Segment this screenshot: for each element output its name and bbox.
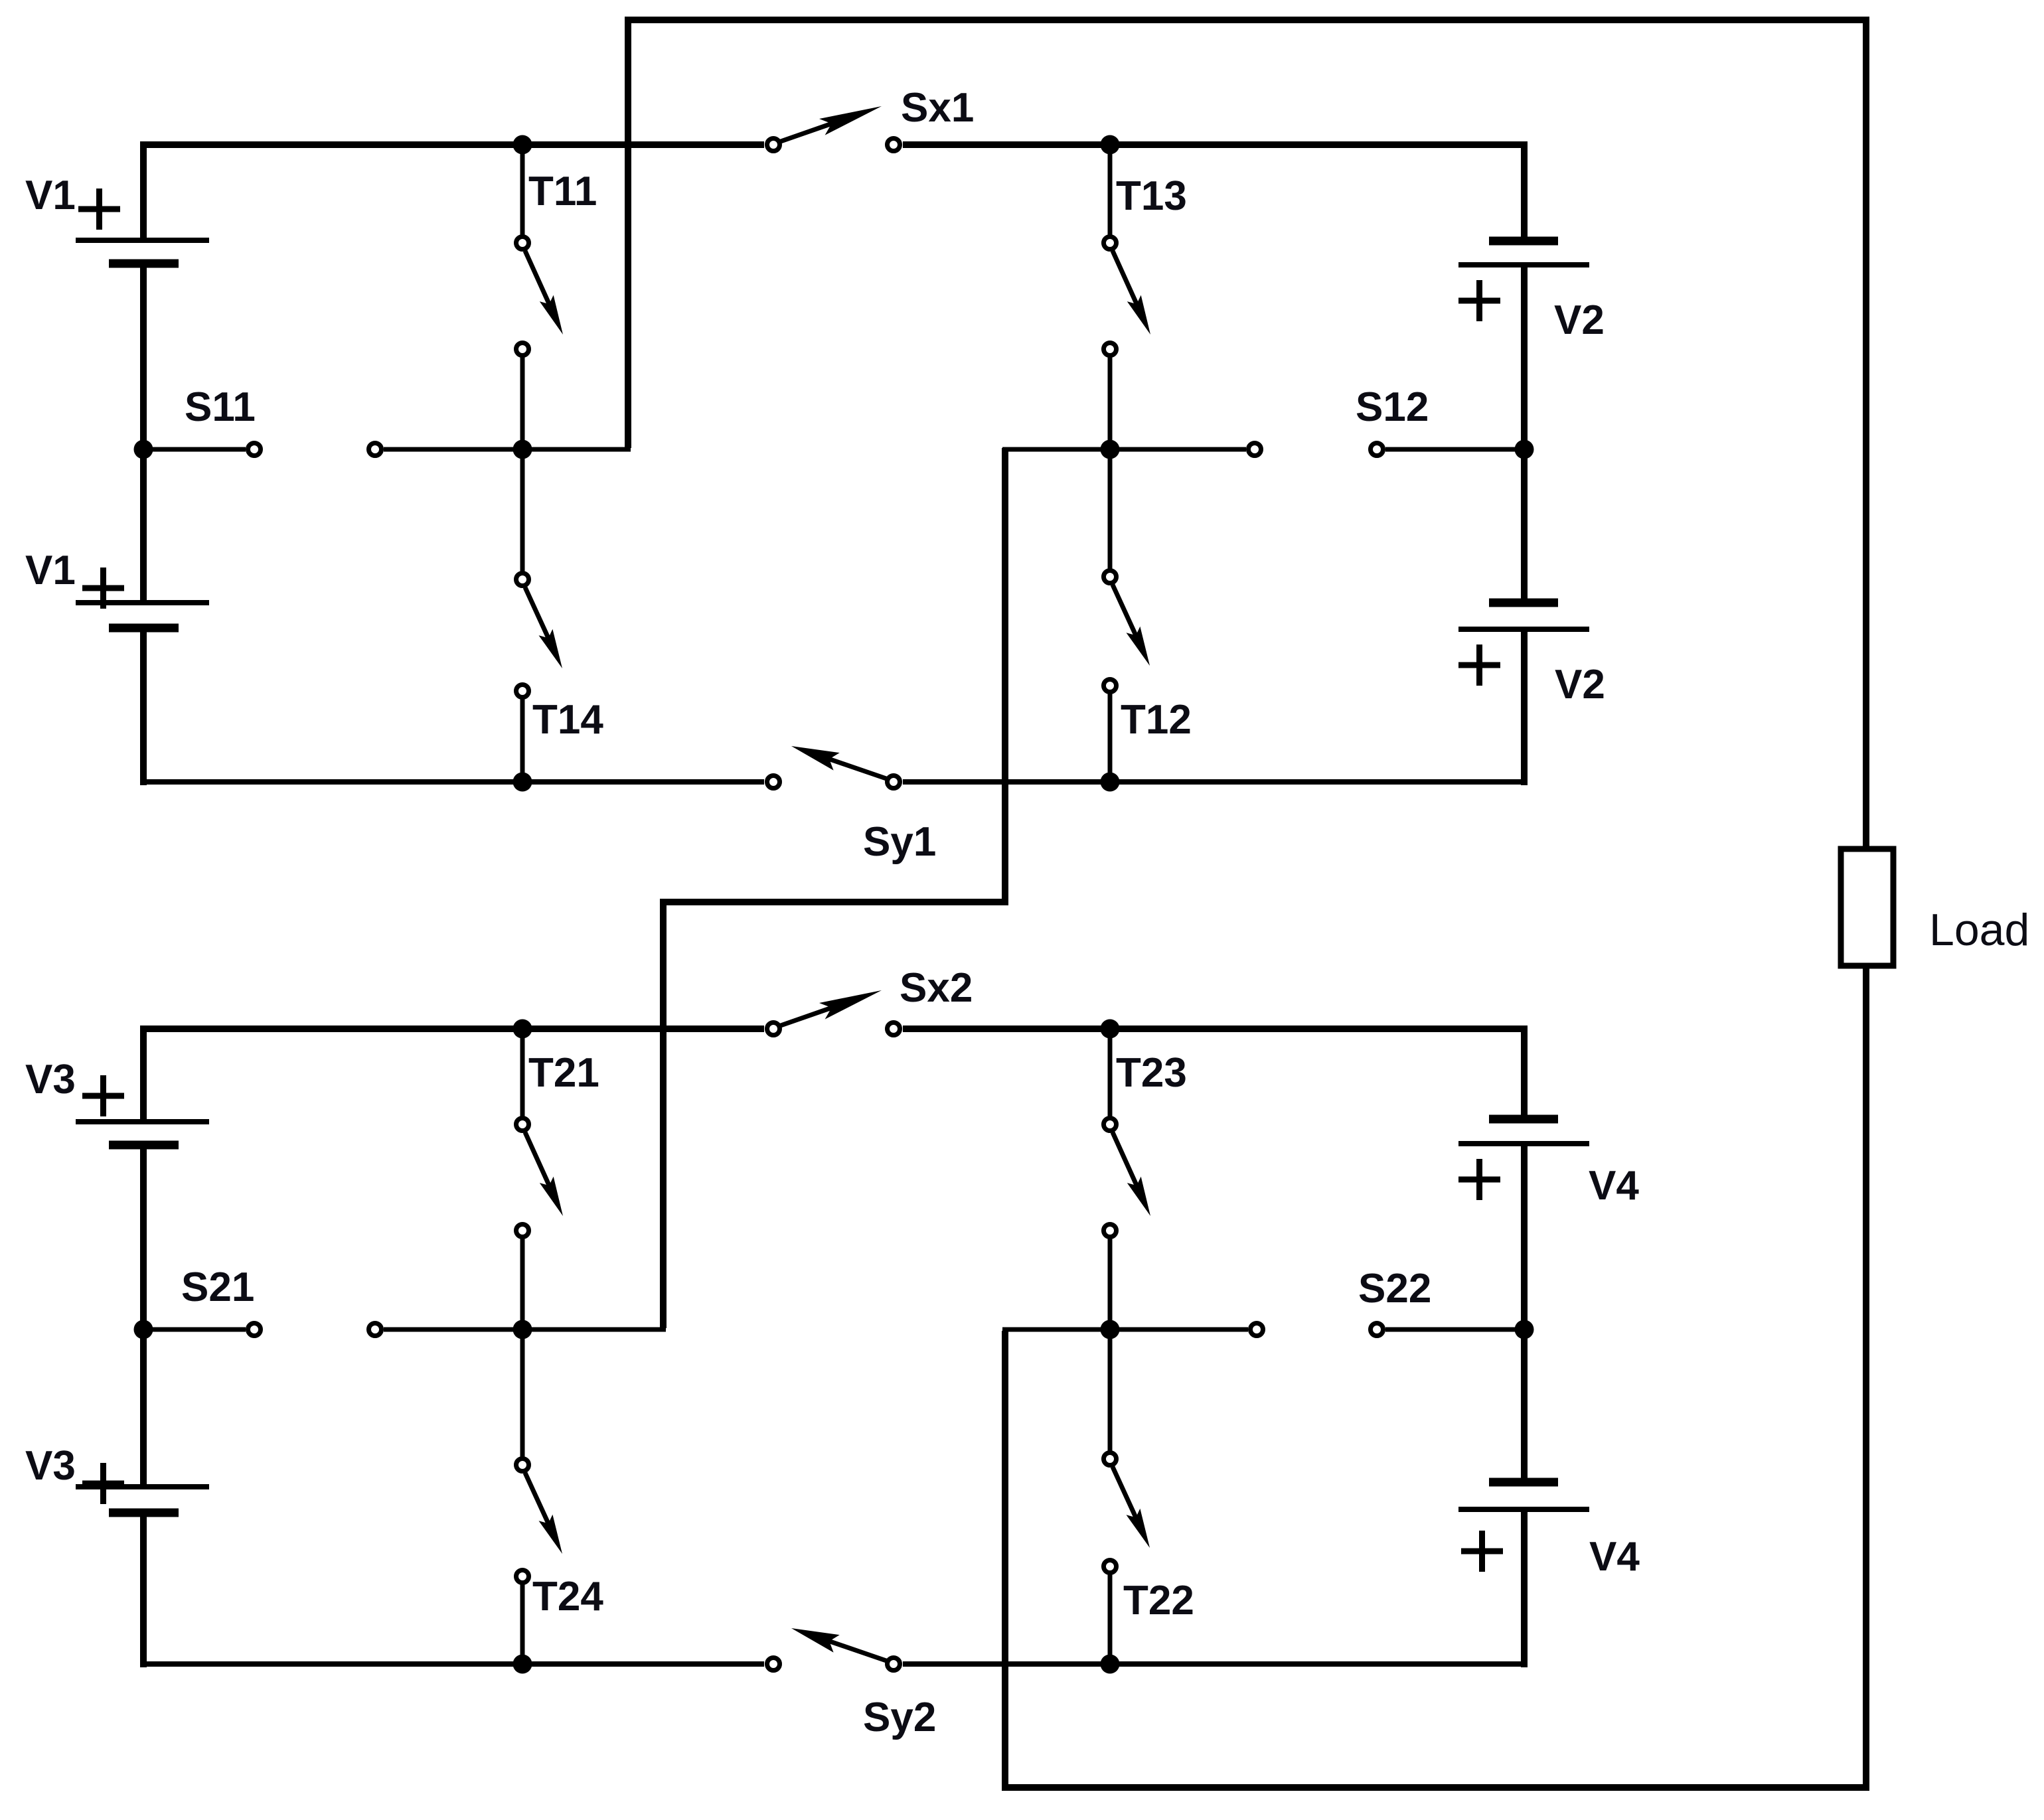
wire: top rail of upper-left loop (V1 top to Sx1 left contact)	[140, 141, 764, 148]
junction dot T11 bottom on S11 row	[513, 440, 532, 459]
plus sign of V1 (upper)	[78, 206, 120, 212]
switch Sx1: contacts on top rail	[767, 139, 780, 151]
junction dot T21 top on Sx2 rail	[513, 1020, 532, 1039]
battery V4 (lower) plates	[1489, 1478, 1558, 1487]
switch S12 contacts	[1249, 443, 1261, 456]
switch S21 contacts	[248, 1324, 261, 1336]
switch T12: lower stub	[1108, 694, 1113, 782]
switch S21: wire from V3 column junction to left contact	[143, 1327, 246, 1332]
battery V1 (upper) to S11 junction wire	[140, 264, 147, 449]
junction dot S12 right on V2 column	[1515, 440, 1534, 459]
wire: Sy1 rail from corner to Sy1 left contact (passes T14 junction)	[140, 779, 764, 785]
wire: Sx2 rail from Sx2 right contact to V4 corner	[903, 1025, 1528, 1032]
switch T14: contacts and arm	[516, 573, 529, 586]
switch T23: contacts and arm	[1104, 1118, 1117, 1131]
switch Sy1: arm with arrow	[817, 755, 887, 779]
junction dot T12 bottom on Sy1 rail	[1101, 773, 1120, 792]
wire: Sy2 rail from corner to Sy2 left contact (passes T24 junction)	[140, 1661, 764, 1667]
plus sign of V4 (upper)	[1458, 1177, 1500, 1183]
wire: V4 lower to Sy2 rail right corner	[1521, 1509, 1528, 1667]
svg-text:S21: S21	[181, 1264, 254, 1310]
svg-text:S22: S22	[1358, 1266, 1431, 1312]
svg-text:V2: V2	[1555, 662, 1605, 708]
switch T13: lower stub	[1108, 357, 1113, 449]
svg-text:V4: V4	[1589, 1163, 1639, 1209]
svg-text:T13: T13	[1116, 173, 1187, 219]
battery V4 (upper) plates	[1489, 1115, 1558, 1124]
junction dot T22 top on S22 row	[1101, 1320, 1120, 1339]
switch S22: wire from z-wire corner to left contact (passes T22 junction)	[1002, 1327, 1248, 1332]
wire: top rail from Sx1 right contact to V2 top corner	[903, 141, 1528, 148]
svg-text:T21: T21	[528, 1050, 599, 1096]
wire: V2 lower to Sy1 rail right corner	[1521, 629, 1528, 785]
svg-text:T14: T14	[532, 697, 603, 743]
svg-text:Sy2: Sy2	[863, 1695, 936, 1740]
switch S22 contacts	[1251, 1324, 1263, 1336]
switch S11 contacts	[248, 443, 261, 456]
svg-text:S11: S11	[185, 384, 256, 430]
switch T21: lower stub	[520, 1239, 525, 1329]
switch T21: contacts and arm	[516, 1118, 529, 1131]
battery V2 (lower): wire from S12 junction down	[1521, 449, 1528, 603]
battery V2 (upper) plates	[1489, 237, 1558, 246]
wire: S12 row left end down, jog left, down to S21 row (crossover)	[663, 448, 1005, 1328]
switch Sy2: contacts on Sy2 rail	[767, 1658, 780, 1671]
switch T14: upper stub	[520, 449, 525, 572]
wire: Sy1 rail from Sy1 right contact to V2 corner (passes T12 junction, crosses z-wire)	[903, 779, 1528, 785]
switch T13: contacts and arm	[1104, 237, 1117, 250]
svg-text:V1: V1	[25, 173, 76, 218]
plus sign of V2 (lower)	[1458, 662, 1500, 668]
junction dot S21 left	[134, 1320, 153, 1339]
switch T22: contacts and arm	[1104, 1453, 1117, 1466]
battery V4 (upper): column wire from Sx2 rail corner	[1521, 1025, 1528, 1119]
svg-text:V4: V4	[1589, 1534, 1640, 1580]
svg-text:V2: V2	[1554, 297, 1605, 343]
switch T23: lower stub	[1108, 1239, 1113, 1329]
svg-text:T11: T11	[528, 169, 597, 214]
wire: Load bottom lead down, left along bottom, up to S22 row	[1005, 966, 1866, 1787]
battery V4 (lower): wire from S22 junction down	[1521, 1329, 1528, 1482]
switch T22: upper stub	[1108, 1329, 1113, 1452]
junction dot T23 top on Sx2 rail	[1101, 1020, 1120, 1039]
wire: V1 lower to Sy1 rail corner	[140, 628, 147, 785]
wire: outer top rail from node above T11 to Load column	[628, 20, 1866, 852]
junction dot S22 right on V4 column	[1515, 1320, 1534, 1339]
switch S21: wire from right contact to bottom-left vertical (passes T21 junction)	[384, 1327, 666, 1332]
svg-text:Sx1: Sx1	[901, 85, 974, 131]
switch S12: wire from z-wire corner to left contact (passes T12 junction)	[1002, 447, 1246, 452]
svg-text:T23: T23	[1116, 1050, 1187, 1096]
svg-text:Sx2: Sx2	[900, 965, 973, 1011]
plus sign of V3 (lower)	[82, 1481, 124, 1487]
wire: Sy2 rail from Sy2 right contact to V4 corner (passes T22 junction, crosses z-wire)	[903, 1661, 1528, 1667]
battery V1 (upper): column wire above	[140, 141, 147, 240]
switch T23: upper stub	[1108, 1029, 1113, 1117]
junction dot T14 bottom on Sy1 rail	[513, 773, 532, 792]
plus sign of V4 (lower)	[1461, 1549, 1503, 1555]
svg-text:V3: V3	[25, 1057, 76, 1102]
switch T12: upper stub	[1108, 449, 1113, 569]
battery V2 (lower) plates	[1489, 599, 1558, 607]
battery V2 (upper): column wire from top rail corner	[1521, 141, 1528, 241]
switch Sx1: arm with arrow	[781, 117, 849, 141]
switch Sx2: arm with arrow	[781, 1002, 849, 1025]
switch Sy1: contacts on lower rail	[767, 776, 780, 789]
switch T22: lower stub	[1108, 1574, 1113, 1664]
battery V3 (lower) plates	[76, 1484, 209, 1489]
switch T11: lower stub	[520, 357, 525, 449]
svg-text:Sy1: Sy1	[863, 819, 936, 865]
svg-text:T22: T22	[1123, 1578, 1194, 1624]
wire: V3 lower to Sy2 rail corner	[140, 1513, 147, 1667]
switch T11: upper stub	[520, 145, 525, 236]
plus sign of V1 (lower)	[82, 585, 124, 591]
junction dot T12 top on S12 row	[1101, 440, 1120, 459]
plus sign of V2 (upper)	[1458, 298, 1500, 304]
switch T24: contacts and arm	[516, 1459, 529, 1472]
battery V2 (upper) to S12 junction wire	[1521, 265, 1528, 449]
battery V3 (lower): wire from S21 junction down	[140, 1329, 147, 1487]
switch S12: wire from right contact to V2 column junction	[1385, 447, 1524, 452]
svg-text:T24: T24	[532, 1574, 603, 1620]
switch Sx2: contacts on Sx2 rail	[767, 1023, 780, 1035]
battery V3 (upper) plates	[76, 1119, 209, 1124]
switch S11: wire from right contact to upper-left vertical (passes T11 junction)	[384, 447, 631, 452]
battery V4 (upper) to S22 junction wire	[1521, 1144, 1528, 1329]
junction dot S11 left	[134, 440, 153, 459]
svg-text:V1: V1	[25, 548, 76, 593]
plus sign of V3 (upper)	[82, 1093, 124, 1099]
battery V1 (upper) plates	[76, 238, 209, 243]
switch T11: contacts and arm	[516, 237, 529, 250]
switch Sy2: arm with arrow	[817, 1637, 887, 1661]
switch T24: upper stub	[520, 1329, 525, 1458]
switch T21: upper stub	[520, 1029, 525, 1117]
switch T13: upper stub	[1108, 145, 1113, 236]
switch S22: wire from right contact to V4 column junction	[1385, 1327, 1524, 1332]
switch S11: wire from V1 column junction to left contact	[143, 447, 246, 452]
switch T12: contacts and arm	[1104, 571, 1117, 583]
battery V1 (lower): wire from S11 junction down	[140, 449, 147, 603]
junction dot T24 bottom on Sy2 rail	[513, 1655, 532, 1674]
battery V1 (lower) plates	[76, 600, 209, 605]
svg-text:Load: Load	[1929, 905, 2029, 955]
battery V3 (upper): column wire below Sx2 rail	[140, 1025, 147, 1122]
load resistor (Load)	[1841, 849, 1893, 966]
switch T24: lower stub	[520, 1584, 525, 1664]
battery V3 (upper) to S21 junction wire	[140, 1145, 147, 1329]
junction dot T13 top	[1101, 135, 1120, 155]
svg-text:V3: V3	[25, 1443, 76, 1489]
svg-text:S12: S12	[1356, 384, 1429, 430]
svg-text:T12: T12	[1121, 697, 1192, 743]
wire: Sx2 rail from V3 corner to Sx2 left contact (passes T21 junction, crosses z-wire)	[140, 1025, 764, 1032]
junction dot T21 bottom on S21 row	[513, 1320, 532, 1339]
junction dot T11 top	[513, 135, 532, 155]
junction dot T22 bottom on Sy2 rail	[1101, 1655, 1120, 1674]
switch T14: lower stub	[520, 699, 525, 782]
